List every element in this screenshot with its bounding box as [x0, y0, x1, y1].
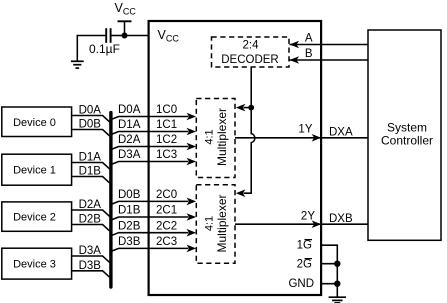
arrowhead 1C3 into mux [187, 158, 197, 166]
svg-text:D2B: D2B [118, 220, 141, 232]
Device 1 box [2, 154, 72, 185]
svg-text:1C1: 1C1 [156, 119, 177, 131]
svg-text:D1A: D1A [118, 119, 141, 131]
power rail Vcc (top) [115, 1, 137, 36]
wire D1B (device to bus) [72, 177, 110, 183]
IC U1 outline (74x multiplexer/decoder) [149, 21, 322, 295]
wire 1C1 input (bus to mux) [112, 132, 189, 135]
wire D1A (device to bus) [72, 163, 110, 169]
System Controller label [381, 121, 433, 148]
junction: enable node [248, 105, 254, 111]
svg-text:GND: GND [288, 278, 314, 290]
arrowhead 2C0 into mux [187, 198, 197, 206]
svg-text:1C0: 1C0 [156, 104, 177, 116]
arrowhead B (into decoder) [290, 56, 300, 64]
svg-text:A: A [305, 33, 313, 45]
svg-text:D0B: D0B [118, 189, 141, 201]
svg-text:Device 0: Device 0 [13, 117, 56, 129]
svg-text:VCC: VCC [115, 1, 137, 16]
arrowhead into mux2 select [236, 189, 246, 197]
wire 2C0 input (bus to mux) [112, 201, 189, 204]
bus (thick vertical trunk) [109, 113, 112, 287]
svg-text:DXB: DXB [329, 213, 353, 225]
wire: Vcc node to capacitor [111, 35, 124, 37]
svg-text:2C2: 2C2 [156, 220, 177, 232]
svg-text:1C2: 1C2 [156, 134, 177, 146]
pin label 1G-bar [297, 239, 312, 251]
pin label 2G-bar [297, 258, 312, 270]
junction GND [334, 281, 340, 287]
svg-text:2G: 2G [297, 258, 312, 270]
arrowhead 2C3 into mux [187, 245, 197, 253]
arrowhead A (into decoder) [290, 41, 300, 49]
svg-text:4:1: 4:1 [204, 216, 216, 231]
svg-text:D2A: D2A [79, 199, 102, 211]
svg-text:D3A: D3A [118, 149, 141, 161]
wire 1C2 input (bus to mux) [112, 147, 189, 150]
Device 3 box [2, 248, 72, 279]
multiplexer U1b 4:1 (dashed) [196, 99, 235, 178]
svg-text:D2B: D2B [79, 214, 102, 226]
arrowhead 1C1 into mux [187, 128, 197, 136]
svg-text:B: B [305, 48, 313, 60]
System Controller box [368, 30, 441, 240]
arrowhead 2Y at IC edge [312, 220, 322, 228]
arrowhead 1C0 into mux [187, 113, 197, 121]
svg-text:System: System [387, 121, 427, 135]
wire: decoder output down to mux enables (hops over 1Y) [244, 67, 255, 193]
capacitor C1 [106, 28, 110, 43]
svg-text:D0B: D0B [79, 119, 102, 131]
multiplexer U1c 4:1 (dashed) [196, 185, 235, 264]
wire D0B (device to bus) [72, 130, 110, 136]
svg-text:DXA: DXA [329, 127, 353, 139]
svg-text:D3B: D3B [79, 260, 102, 272]
svg-text:2C1: 2C1 [156, 205, 177, 217]
svg-text:D3A: D3A [79, 245, 102, 257]
wire: enable to mux1 [244, 107, 252, 109]
wire 2Y / DXB (mux2 output to system controller) [235, 223, 368, 225]
svg-text:2:4: 2:4 [243, 39, 260, 51]
ground symbol (capacitor) [71, 61, 84, 68]
svg-text:VCC: VCC [158, 28, 180, 44]
wire GND pin [321, 283, 337, 285]
Device 0 box [2, 107, 72, 137]
svg-text:Multiplexer: Multiplexer [215, 108, 229, 166]
wire 1C3 input (bus to mux) [112, 162, 189, 165]
svg-text:0.1µF: 0.1µF [89, 42, 120, 56]
svg-text:1Y: 1Y [298, 124, 312, 136]
svg-text:4:1: 4:1 [204, 129, 216, 144]
svg-text:D3B: D3B [118, 236, 141, 248]
wire: Vcc node to IC pin [125, 35, 150, 37]
svg-text:D2A: D2A [118, 134, 141, 146]
wire A : system controller to decoder [290, 44, 369, 46]
decoder U1a 2:4 DECODER (dashed) [212, 37, 290, 67]
wire D2A (device to bus) [72, 210, 110, 216]
wire D3B (device to bus) [72, 271, 110, 277]
svg-text:D1B: D1B [79, 166, 102, 178]
svg-text:Device 3: Device 3 [13, 259, 56, 271]
ground symbol (IC) [329, 297, 346, 303]
junction: Vcc node [122, 33, 128, 39]
Device 2 box [2, 202, 72, 231]
svg-text:Device 2: Device 2 [13, 212, 56, 224]
wire 2C3 input (bus to mux) [112, 248, 189, 251]
svg-text:1G: 1G [297, 239, 312, 251]
wire 1C0 input (bus to mux) [112, 117, 189, 120]
svg-text:DECODER: DECODER [221, 54, 279, 66]
wire D3A (device to bus) [72, 256, 110, 262]
svg-text:2Y: 2Y [301, 211, 315, 223]
wire: capacitor to ground [77, 36, 105, 61]
wire 2G-bar pin [321, 263, 337, 265]
arrowhead 2C2 into mux [187, 229, 197, 237]
svg-text:D0A: D0A [79, 105, 102, 117]
svg-text:D1B: D1B [118, 205, 141, 217]
svg-text:Controller: Controller [381, 134, 433, 148]
wire D0A (device to bus) [72, 116, 110, 122]
wire 1G-bar pin to ground rail [321, 245, 337, 296]
arrowhead 2C1 into mux [187, 213, 197, 221]
svg-text:1C3: 1C3 [156, 149, 177, 161]
svg-text:Multiplexer: Multiplexer [215, 194, 229, 252]
arrowhead 1C2 into mux [187, 143, 197, 151]
wire D2B (device to bus) [72, 225, 110, 231]
wire B : system controller to decoder [290, 59, 369, 61]
arrowhead 1Y at IC edge [312, 134, 322, 142]
svg-text:D1A: D1A [79, 152, 102, 164]
wire 1Y / DXA (mux1 output to system controller) [235, 137, 368, 139]
svg-text:Device 1: Device 1 [13, 165, 56, 177]
svg-text:D0A: D0A [118, 104, 141, 116]
junction 2G-bar [334, 261, 340, 267]
wire 2C1 input (bus to mux) [112, 217, 189, 220]
arrowhead into mux1 select [236, 104, 246, 112]
svg-text:2C3: 2C3 [156, 236, 177, 248]
svg-text:2C0: 2C0 [156, 189, 177, 201]
wire 2C2 input (bus to mux) [112, 233, 189, 236]
